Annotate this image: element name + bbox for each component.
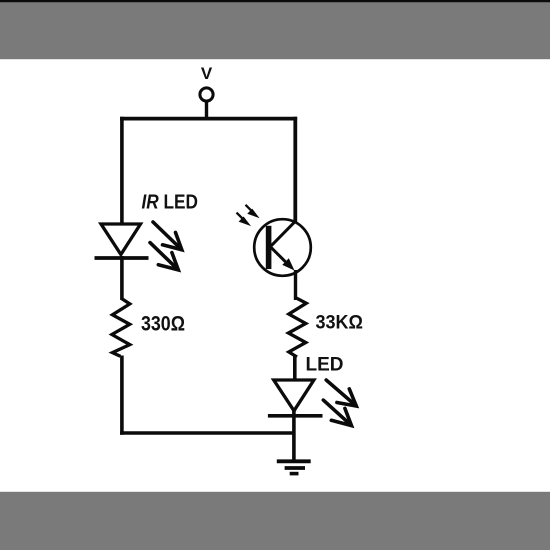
resistor R1 330 ohm xyxy=(112,299,130,357)
wire emitter to R2 xyxy=(294,270,297,300)
svg-text:LED: LED xyxy=(306,355,344,376)
wire terminal stub xyxy=(205,101,208,120)
phototransistor light arrow 2 xyxy=(237,213,248,224)
top black border line xyxy=(0,0,550,2)
terminal V xyxy=(200,88,213,101)
phototransistor Q1 emitter lead xyxy=(271,247,290,266)
phototransistor Q1 circle xyxy=(254,219,311,276)
LED light arrow 2 xyxy=(323,400,351,426)
svg-text:V: V xyxy=(201,64,213,83)
svg-text:IR LED: IR LED xyxy=(142,192,199,214)
wire D2 to ground xyxy=(292,409,296,462)
wire left vertical upper xyxy=(120,117,124,225)
top gray banner xyxy=(0,2,550,59)
ground xyxy=(277,461,311,473)
IR LED light arrow 2 xyxy=(150,243,178,270)
IR LED D1 xyxy=(95,224,149,258)
wire top rail xyxy=(120,117,297,121)
IR LED light arrow 1 xyxy=(153,222,182,250)
wire left between D1 and R1 xyxy=(120,256,124,300)
wire left vertical lower xyxy=(120,356,124,435)
wire R2 to D2 xyxy=(293,356,297,382)
LED D2 xyxy=(268,380,323,416)
svg-text:330Ω: 330Ω xyxy=(141,313,185,336)
wire collector vertical xyxy=(293,117,297,223)
bottom gray banner xyxy=(0,492,550,550)
wire bottom rail xyxy=(120,431,294,435)
phototransistor light arrow 1 xyxy=(246,205,257,216)
svg-text:33KΩ: 33KΩ xyxy=(316,312,364,334)
phototransistor Q1 emitter arrowhead xyxy=(282,258,294,270)
phototransistor Q1 base bar xyxy=(266,226,272,269)
LED light arrow 1 xyxy=(326,380,356,406)
phototransistor Q1 collector lead xyxy=(271,221,296,246)
resistor R2 33K ohm xyxy=(288,298,306,357)
